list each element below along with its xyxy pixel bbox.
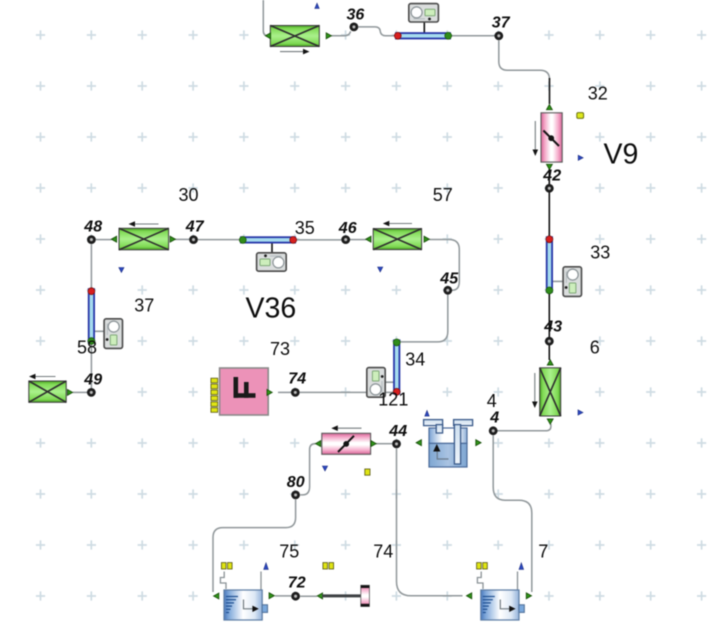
wire node 48 down to pipe 58 <box>90 244 92 288</box>
wire valve right port to node 44 <box>376 443 392 445</box>
valve V9 <box>533 105 563 170</box>
svg-text:34: 34 <box>405 350 425 370</box>
svg-text:45: 45 <box>439 271 459 288</box>
V9 status icons <box>577 113 584 119</box>
svg-text:7: 7 <box>538 542 548 562</box>
node 72 <box>291 592 300 601</box>
svg-text:32: 32 <box>588 84 608 104</box>
svg-text:121: 121 <box>378 390 408 410</box>
svg-text:74: 74 <box>373 542 393 562</box>
wire node 36 to pipe 36-37 <box>358 27 395 36</box>
svg-text:44: 44 <box>388 423 407 440</box>
node 4 <box>489 426 498 435</box>
wire node 45 down to pipe 34 <box>399 295 448 342</box>
wire node 74 to pipe 34 <box>300 391 393 393</box>
node 37 <box>494 31 503 40</box>
heater element 57 <box>366 221 430 250</box>
cooler element at node 49 (far left) <box>29 374 73 403</box>
wire node 46 to heater 57 <box>350 239 366 241</box>
svg-text:4: 4 <box>487 391 497 411</box>
wire cooler 49 to node 49 <box>73 391 87 393</box>
node 74 <box>291 388 300 397</box>
wire pipe 58 to node 49 <box>90 344 92 388</box>
svg-text:V36: V36 <box>246 293 297 325</box>
plug element after node 72 <box>317 585 369 606</box>
node 44 <box>392 440 401 449</box>
svg-text:75: 75 <box>279 542 299 562</box>
node 49 <box>87 388 96 397</box>
svg-text:42: 42 <box>542 168 561 185</box>
cooler element (top-left, before node 36) <box>265 3 331 54</box>
wire heater 30 to node 47 <box>175 238 189 240</box>
wire node 72 to plug 72 <box>300 595 317 597</box>
separator element (near node 44) <box>416 420 481 467</box>
node 45 <box>443 286 452 295</box>
node 43 <box>545 337 554 346</box>
node 47 <box>189 235 198 244</box>
pipe element 33 with gauge <box>546 236 582 296</box>
wire node 4 down to tank 7 <box>493 436 532 593</box>
wire valve V9 to node 42 <box>548 168 550 184</box>
svg-text:37: 37 <box>134 296 154 316</box>
svg-text:80: 80 <box>287 474 305 491</box>
node 42 <box>545 184 554 193</box>
node 80 <box>291 491 300 500</box>
heater element 30 <box>111 221 175 250</box>
svg-text:6: 6 <box>590 338 600 358</box>
svg-text:58: 58 <box>77 338 97 358</box>
svg-text:74: 74 <box>288 371 306 388</box>
wire pipe 35 to node 46 <box>297 239 342 241</box>
tank element 7 (bottom-right) <box>467 572 532 621</box>
svg-text:30: 30 <box>179 185 199 205</box>
wire node 48 to heater 30 <box>96 239 112 241</box>
wire node 42 to pipe 33 <box>548 193 550 237</box>
svg-text:36: 36 <box>347 7 365 24</box>
node 36 <box>350 23 359 32</box>
wire heater 57 to node 45 <box>429 240 459 291</box>
F element 73 (pink box) <box>220 368 273 415</box>
wire F-element 73 to node 74 <box>278 391 291 393</box>
valve element between node 80 and node 44 <box>316 425 377 454</box>
indicator squares of element 73 <box>211 378 218 383</box>
wire valve 80-44 left port to node 80 <box>300 444 315 495</box>
pipe element 36-37 with gauge <box>394 4 451 40</box>
svg-text:46: 46 <box>338 220 357 237</box>
pipe element 34/121 with gauge <box>367 339 401 397</box>
svg-text:49: 49 <box>83 372 102 389</box>
wire pipe 33 to node 43 <box>548 294 550 337</box>
svg-text:47: 47 <box>185 219 205 236</box>
wire tank 75 to node 72 <box>275 595 291 597</box>
svg-text:37: 37 <box>492 15 511 32</box>
wire cooler to node 36 <box>327 31 351 36</box>
svg-text:4: 4 <box>489 410 499 427</box>
pipe element 35 with gauge <box>239 236 296 271</box>
svg-text:43: 43 <box>543 319 562 336</box>
svg-text:33: 33 <box>590 243 610 263</box>
wire compressor 6 to node 4 <box>498 424 551 431</box>
wire node 43 to compressor 6 <box>548 346 550 361</box>
wire node 37 down to valve V9 <box>499 41 550 80</box>
wire node 44 down to tank 7 (element 74) <box>397 449 463 596</box>
wire entry top-left into cooler 36-row <box>263 0 268 36</box>
svg-text:73: 73 <box>270 339 290 359</box>
node 46 <box>341 235 350 244</box>
svg-text:72: 72 <box>288 575 306 592</box>
wire node 47 to pipe 35 <box>198 239 240 241</box>
compressor element 6 <box>532 360 561 424</box>
wire pipe to node 37 <box>451 35 495 37</box>
svg-text:V9: V9 <box>604 139 639 171</box>
node 48 <box>87 235 96 244</box>
wire node 80 down to tank 75 <box>213 500 296 593</box>
svg-text:35: 35 <box>295 218 315 238</box>
pipe element 58 with gauge <box>88 288 123 349</box>
svg-text:48: 48 <box>83 219 102 236</box>
svg-text:57: 57 <box>433 185 453 205</box>
tank element 75 (bottom-left) <box>214 572 275 621</box>
